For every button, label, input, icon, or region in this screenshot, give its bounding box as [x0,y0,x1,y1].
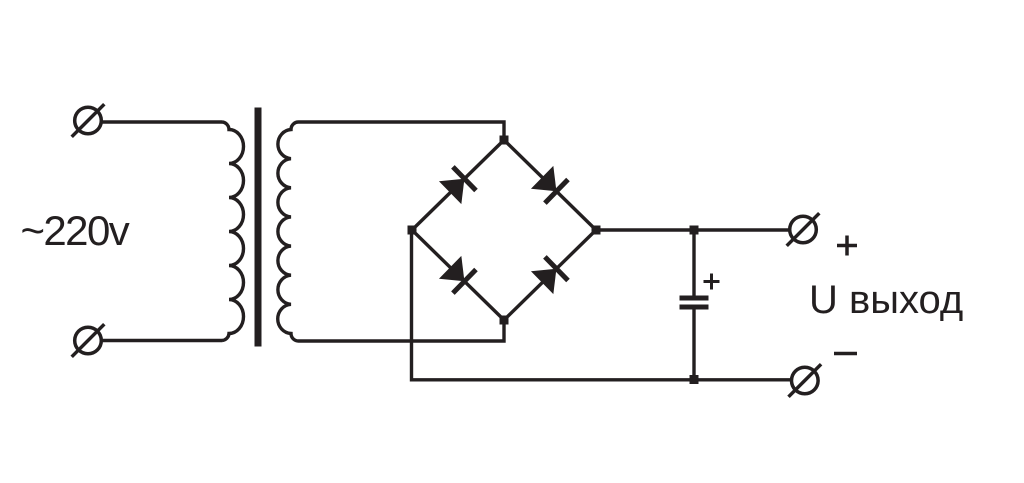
svg-text:U выход: U выход [809,278,963,322]
bridge node right [592,226,601,235]
bridge edge upper-right [504,140,596,230]
wire secondary top to bridge top node [299,122,505,140]
bridge edge lower-right [504,230,596,320]
bridge node top [500,136,509,145]
bridge edge upper-left [412,140,504,230]
output terminal minus [789,364,822,397]
bridge edge lower-left [412,230,504,320]
wire secondary bottom to bridge bottom node [299,320,505,341]
wire bridge left node down and along bottom rail to minus terminal [412,230,791,380]
input terminal bottom-left [72,324,105,357]
capacitor C1 [680,230,709,380]
transformer secondary winding [278,122,299,341]
junction dot capacitor top [690,226,699,235]
diode lower-right [531,257,568,294]
label minus [834,352,857,356]
junction dot capacitor bottom [690,375,699,384]
diode upper-left [439,167,476,204]
svg-text:~220v: ~220v [21,207,130,254]
capacitor polarity plus [704,274,720,290]
transformer core [255,108,262,347]
wire bridge right node to plus terminal [596,228,789,231]
transformer primary winding [222,122,243,341]
diode lower-left [439,256,476,293]
wire primary bottom to T2 [103,339,223,342]
label plus [837,236,857,256]
bridge node left [408,226,417,235]
output terminal plus [787,213,820,246]
input terminal top-left [72,104,105,137]
diode upper-right [531,166,568,203]
bridge node bottom [500,316,509,325]
wire T1 to primary top [103,120,223,123]
